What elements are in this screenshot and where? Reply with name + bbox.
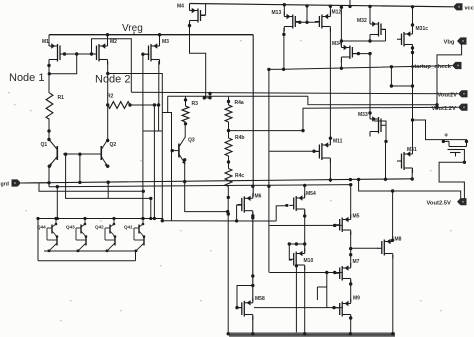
svg-text:M5: M5: [353, 214, 360, 220]
transistor Q41 pair: [142, 219, 144, 225]
svg-text:Vreg: Vreg: [122, 23, 143, 34]
wire M5 M7 M9 column: [350, 185, 352, 218]
wire M31 down to gnd bus: [411, 170, 413, 180]
wire M34 source down: [340, 59, 342, 69]
wire M1 source: [48, 35, 50, 45]
wire Vbg port stub: [461, 43, 463, 46]
svg-text:vcc: vcc: [465, 5, 474, 11]
wire R3 to Q3: [184, 122, 186, 138]
wire R1 to Q1: [48, 119, 50, 138]
svg-text:M32: M32: [357, 18, 367, 24]
wire M31c column: [412, 7, 414, 33]
wire Q1 collector entry: [48, 131, 50, 140]
transistor M8: [392, 237, 394, 242]
wire ground bus: [21, 179, 412, 183]
wire M10 left leg to band: [295, 267, 297, 333]
wire Vreg column low: [252, 316, 254, 334]
wire Vbg down: [437, 44, 462, 108]
wire M3 drain: [158, 61, 160, 105]
wire gnd port lead: [21, 182, 49, 184]
wire R2 tap short: [158, 105, 160, 131]
svg-text:R4a: R4a: [235, 100, 244, 106]
transistor M1: [48, 41, 50, 46]
wire Vreg rail: [49, 34, 253, 36]
svg-text:M13: M13: [272, 10, 282, 16]
wire R4a top stub: [228, 97, 230, 105]
transistor M32: [369, 19, 371, 24]
wire node2 jog: [162, 96, 167, 112]
wire M32 gate down: [382, 30, 386, 42]
svg-text:R2: R2: [107, 94, 114, 100]
wire M1 drain column: [48, 61, 50, 93]
port Vout2V: [458, 90, 468, 97]
transistor M7: [350, 263, 352, 268]
wire quad mid bus: [44, 250, 136, 252]
wire M2 drain column: [107, 61, 109, 141]
transistor M4: [189, 6, 191, 11]
wire Vreg tick: [133, 32, 135, 35]
wire M34 gate link: [353, 53, 370, 55]
transistor M3: [159, 41, 161, 46]
wire M8 source down: [392, 255, 394, 333]
wire M33 drain: [374, 121, 386, 179]
wire M12 drain down: [329, 28, 331, 144]
wire M8 drain up: [392, 191, 394, 242]
transistor M10: [304, 249, 306, 254]
wire M13 source: [283, 5, 285, 15]
svg-text:M1: M1: [42, 39, 49, 45]
resistor R4c: [225, 169, 232, 187]
wire M9 M58 gate line: [254, 307, 342, 309]
transistor M34: [340, 43, 342, 48]
wire M11 gate line: [270, 150, 319, 152]
svg-text:M12: M12: [332, 10, 342, 16]
wire gate tie vertical: [326, 273, 328, 308]
wire quad bottom bus: [38, 260, 136, 262]
svg-text:Vout1.2V: Vout1.2V: [432, 106, 457, 112]
svg-text:Node 2: Node 2: [95, 74, 130, 86]
svg-text:M33: M33: [358, 112, 368, 118]
svg-text:M31c: M31c: [416, 26, 429, 32]
wire M33 feed: [369, 54, 371, 113]
wire Q1 emitter column: [48, 166, 50, 187]
port vcc: [453, 3, 463, 10]
svg-text:Q3: Q3: [188, 138, 195, 144]
wire right stair: [413, 120, 467, 143]
transistor M12: [329, 12, 331, 17]
wire vcc top rail: [190, 4, 454, 7]
wire M8 gate: [351, 247, 379, 249]
svg-text:M6: M6: [255, 194, 262, 200]
wire M13 drain down: [283, 28, 285, 69]
svg-text:M8: M8: [395, 237, 402, 243]
wire R3 top stub: [185, 96, 187, 106]
wire Vout2V tap stub: [209, 94, 211, 98]
svg-text:Vout2V: Vout2V: [438, 92, 458, 98]
wire Vreg column down: [252, 35, 254, 197]
wire top stub: [349, 0, 351, 6]
transistor M11: [329, 140, 331, 145]
svg-text:Q43: Q43: [66, 225, 75, 230]
wire Vout2.5V line: [359, 180, 461, 198]
wire y86 link: [391, 85, 412, 87]
wire startup tap: [390, 67, 392, 86]
wire Node2 to mid column: [108, 74, 163, 221]
svg-text:Q42: Q42: [95, 225, 104, 230]
wire base tap y198: [66, 154, 151, 218]
transistor Q44 pair: [55, 219, 57, 225]
wire R4c bottom to ground band: [227, 197, 229, 333]
wire step down to Vout1.2V aux: [308, 96, 437, 105]
wire M31 feed: [412, 120, 414, 153]
wire R4ab junction to Vout1.2V: [229, 107, 459, 130]
wire M11 drain down: [329, 160, 331, 183]
wire R2 right link: [130, 104, 159, 106]
wire net2 bus: [49, 185, 352, 187]
transistor M58: [252, 298, 254, 303]
transistor M9: [350, 299, 352, 304]
svg-text:M31: M31: [407, 147, 417, 153]
svg-text:M3: M3: [162, 39, 169, 45]
svg-text:R1: R1: [58, 95, 65, 101]
wire quad top bus: [38, 218, 163, 220]
port Vout1.2V: [458, 104, 468, 111]
wire net2 tap quad: [56, 187, 58, 219]
svg-text:M58: M58: [255, 296, 265, 302]
wire R2 tap down: [153, 105, 155, 219]
wire base tap gnd: [79, 154, 81, 182]
square joints: [286, 204, 289, 207]
port Vbg: [457, 37, 467, 44]
wire Q1 Q2 base link: [63, 153, 101, 155]
wire M4 drain path: [190, 22, 206, 98]
wire M34 feed: [340, 7, 342, 46]
transistor M31c: [412, 29, 414, 34]
port gnd: [12, 179, 22, 186]
wire Q3 base lead: [172, 150, 179, 152]
transistor Q3: [178, 144, 180, 158]
scan speckle: [30, 110, 32, 111]
wire gate hint horizontal: [317, 286, 326, 288]
resistor R3: [182, 106, 189, 122]
wire y41 link: [341, 40, 385, 42]
transistor M13: [283, 12, 285, 17]
wire long gate bus y221: [162, 220, 276, 222]
transistor M5: [350, 215, 352, 220]
wire gnd tap down: [107, 182, 109, 198]
svg-text:M7: M7: [353, 259, 360, 265]
svg-text:Node 1: Node 1: [9, 72, 44, 84]
wire R4 column joints: [228, 122, 230, 138]
svg-text:M11: M11: [333, 139, 343, 145]
wire Vreg column mid: [252, 212, 254, 301]
svg-text:R3: R3: [192, 101, 199, 107]
resistor R1: [46, 93, 53, 119]
svg-text:R4b: R4b: [235, 135, 244, 141]
svg-text:M2: M2: [110, 39, 117, 45]
svg-text:grd: grd: [1, 182, 9, 188]
svg-text:R4c: R4c: [235, 173, 244, 179]
wire M54 gate path: [276, 206, 288, 221]
ground band: [229, 332, 395, 337]
wire M4 source: [189, 4, 191, 10]
svg-text:Q2: Q2: [110, 142, 117, 148]
wire startup_check line: [269, 66, 452, 70]
wire M5 gate line: [270, 224, 343, 226]
wire startup column: [268, 69, 270, 272]
wire strap y131: [143, 130, 162, 132]
port Vout2.5V: [457, 198, 467, 205]
transistor Q1: [56, 146, 58, 160]
svg-text:Vbg: Vbg: [444, 40, 455, 46]
svg-text:M4: M4: [177, 4, 184, 10]
wire M7 gate line: [270, 272, 343, 274]
wire R3 R4a feed line: [168, 95, 308, 97]
wire M3 gate bus down: [143, 54, 150, 218]
wire cluster out loop: [439, 150, 464, 199]
wire Vout2V line: [131, 92, 458, 94]
transistor M2: [107, 41, 109, 46]
wire M1 gate to Node 1: [49, 54, 76, 74]
resistor R4b: [225, 138, 232, 156]
wire M1 M2 gate bus: [60, 53, 92, 55]
wire M6 gate tap: [237, 205, 243, 221]
wire quad left leg: [37, 219, 39, 261]
wire mid vertical to long bus: [168, 113, 172, 222]
port startup_check: [452, 62, 462, 69]
resistor R2: [108, 102, 130, 109]
wire M4 gate up: [201, 4, 206, 15]
wire M10 feed: [289, 243, 304, 245]
wire M13 M12 gate tie: [296, 21, 319, 23]
junction dots: [106, 33, 109, 36]
svg-text:Vout2.5V: Vout2.5V: [427, 200, 452, 206]
svg-text:M9: M9: [353, 296, 360, 302]
transistor M6: [252, 193, 254, 198]
transistor M33: [369, 114, 371, 119]
wire gnd branch y191: [39, 183, 143, 191]
wire quad right leg: [135, 251, 137, 261]
transistor Q42 pair: [113, 219, 115, 225]
wire M58 gate loop: [237, 286, 253, 308]
svg-text:Q1: Q1: [41, 142, 48, 148]
resistor R4a: [225, 105, 232, 122]
svg-text:startup_check: startup_check: [411, 64, 452, 70]
wire M32 column: [369, 7, 371, 23]
wire M3 source: [159, 35, 161, 45]
wire Q3 emitter down: [185, 160, 228, 212]
transistor M2cap right cluster: [443, 140, 449, 142]
transistor M54: [304, 193, 306, 198]
transistor M31: [412, 149, 414, 154]
wire M12 source: [329, 6, 331, 15]
transistor Q2: [100, 146, 102, 160]
wire M2 source: [107, 35, 109, 45]
svg-text:M54: M54: [306, 191, 316, 197]
svg-text:Q44: Q44: [37, 225, 46, 230]
svg-text:Q41: Q41: [124, 225, 133, 230]
svg-text:M10: M10: [304, 258, 314, 264]
wire M54 column: [304, 186, 306, 197]
transistor Q43 pair: [84, 219, 86, 225]
